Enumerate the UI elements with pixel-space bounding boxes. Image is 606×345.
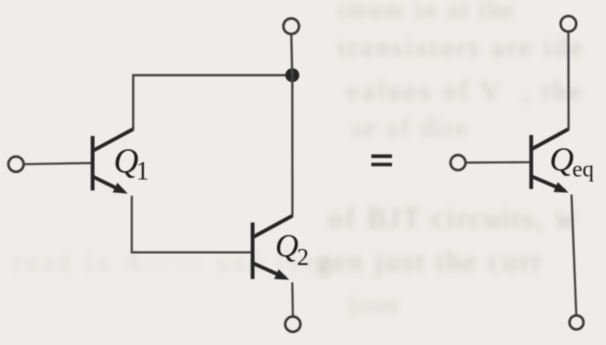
svg-text:2: 2 — [297, 245, 309, 271]
svg-text:Q: Q — [114, 142, 139, 180]
svg-text:imum in at the: imum in at the — [337, 0, 516, 24]
wire: Q1 emitter down and right to Q2 base — [131, 196, 252, 253]
svg-text:Q: Q — [275, 228, 298, 264]
terminal E of Qeq (bottom, open circle) — [570, 315, 584, 329]
wire: base lead to Q1 — [24, 163, 92, 164]
transistor Qeq — [531, 129, 568, 193]
wire: base lead to Qeq — [466, 161, 531, 164]
svg-text:Q: Q — [550, 141, 574, 178]
svg-text:gen just the corr: gen just the corr — [316, 245, 544, 278]
svg-text:eq: eq — [572, 156, 594, 181]
wire: Q2 collector up to node — [291, 75, 293, 216]
svg-text:transistors are ide: transistors are ide — [338, 32, 585, 62]
terminal C of Qeq (top, open circle) — [561, 16, 577, 32]
terminal B of Qeq (open circle) — [451, 155, 466, 170]
equals sign — [371, 156, 392, 164]
wire: node to top terminal — [290, 34, 293, 76]
node: collector junction dot — [285, 68, 299, 82]
svg-text:of BJT circuits, w: of BJT circuits, w — [328, 202, 578, 235]
svg-text:values of V , the: values of V , the — [346, 76, 584, 106]
svg-text:(cont: (cont — [348, 291, 399, 318]
transistor Q2 — [253, 216, 293, 280]
terminal C (top, open circle) — [283, 18, 299, 34]
wire: Q2 emitter down to terminal — [291, 282, 294, 317]
wire: Q1 collector up and right to node — [132, 74, 292, 129]
wire: Qeq emitter down to terminal — [572, 195, 577, 316]
terminal B (left, open circle) — [8, 157, 23, 172]
wire: Qeq collector up to terminal — [567, 32, 569, 130]
transistor Q1 — [93, 129, 134, 194]
svg-text:se of dire: se of dire — [352, 113, 469, 142]
svg-text:1: 1 — [136, 156, 149, 185]
terminal E (bottom, open circle) — [285, 317, 300, 332]
